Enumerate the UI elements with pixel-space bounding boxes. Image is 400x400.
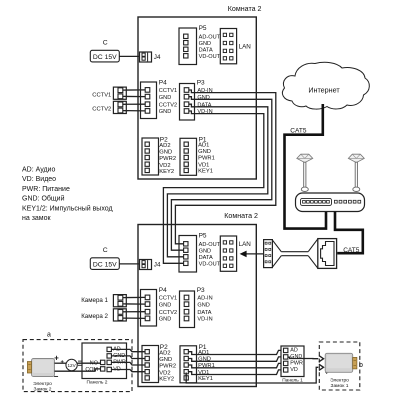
- wire unit2 P1 GND to panel1: [188, 357, 281, 361]
- svg-text:DATA: DATA: [199, 255, 213, 261]
- legend text: [22, 167, 113, 223]
- svg-text:+: +: [54, 354, 59, 363]
- svg-text:P5: P5: [199, 25, 207, 32]
- connector J4 (unit 1): [140, 52, 161, 62]
- wire DATA: unit1 P3 to unit2 P5: [167, 104, 267, 257]
- svg-text:DC 15V: DC 15V: [93, 54, 117, 61]
- svg-text:CCTV1: CCTV1: [92, 92, 111, 98]
- svg-text:CCTV2: CCTV2: [159, 310, 177, 316]
- svg-text:DATA: DATA: [197, 102, 211, 108]
- 12V terminal dashes: [78, 360, 82, 362]
- svg-text:Интернет: Интернет: [308, 86, 340, 95]
- arrow into unit2 LAN: [240, 251, 247, 258]
- connector P4 (unit 1): [141, 80, 178, 119]
- svg-text:KEY1: KEY1: [198, 376, 213, 382]
- wire 12V to NO: [77, 362, 100, 364]
- electric lock 2 body: [27, 359, 54, 377]
- connector P3 (unit 2): [180, 287, 213, 327]
- svg-text:P3: P3: [197, 287, 205, 294]
- svg-text:AD-OUT: AD-OUT: [199, 242, 221, 248]
- cable body: [281, 251, 308, 253]
- wire DC15V to J4 (unit 2): [119, 263, 139, 265]
- panel2 pin VD: [107, 367, 111, 371]
- connector P5 (unit 2): [179, 232, 221, 272]
- wire panel2 VD to unit2 P2: [111, 370, 145, 372]
- wire VD: unit1 P3 to unit2 P5: [163, 111, 263, 263]
- svg-text:GND: GND: [197, 302, 209, 308]
- svg-text:PWR: Питание: PWR: Питание: [22, 186, 70, 193]
- svg-text:Камера 2: Камера 2: [81, 313, 108, 320]
- Камера 2 plug: [113, 309, 126, 321]
- svg-text:NO: NO: [90, 360, 98, 366]
- svg-text:Электро: Электро: [330, 378, 349, 384]
- svg-text:KEY1: KEY1: [198, 169, 213, 175]
- dashed enclosure b: [319, 342, 360, 390]
- wire panel1 GND to lock 1: [288, 357, 318, 359]
- DC 15V power supply (unit 2): [90, 258, 119, 270]
- svg-text:VD1: VD1: [198, 162, 209, 168]
- wire Камера1 pin2 to P4: [123, 303, 145, 305]
- svg-text:GND: GND: [198, 149, 211, 155]
- cable boot left: [272, 240, 281, 267]
- svg-text:DATA: DATA: [197, 310, 211, 316]
- wire CAT5 internet to router: [285, 104, 327, 229]
- svg-text:CCTV1: CCTV1: [159, 88, 177, 94]
- DC 15V power supply (unit 1): [90, 50, 119, 62]
- svg-text:CCTV2: CCTV2: [92, 107, 111, 113]
- panel2 pin AD: [107, 347, 111, 351]
- svg-text:LAN: LAN: [239, 43, 252, 50]
- connector P2 (unit 2): [142, 344, 176, 383]
- svg-text:KEY1/2: Импульсный выход: KEY1/2: Импульсный выход: [22, 204, 113, 212]
- connector LAN (unit 1): [220, 29, 236, 64]
- wire unit2 P1 AD1 to panel1: [188, 350, 281, 354]
- connector P2 (unit 1): [142, 136, 176, 175]
- wire CCTV1 pin1 to P4: [123, 89, 145, 91]
- svg-text:VD: Видео: VD: Видео: [22, 176, 56, 183]
- Камера 1 plug: [113, 295, 126, 307]
- svg-text:AD-OUT: AD-OUT: [199, 35, 221, 41]
- svg-text:KEY2: KEY2: [159, 377, 174, 383]
- svg-text:b: b: [359, 362, 363, 369]
- svg-text:а: а: [47, 332, 51, 339]
- svg-text:P4: P4: [159, 80, 167, 87]
- svg-text:J4: J4: [154, 54, 161, 61]
- router right port squares: [334, 200, 360, 203]
- svg-text:VD-OUT: VD-OUT: [199, 54, 221, 60]
- svg-text:AD-IN: AD-IN: [197, 88, 212, 94]
- svg-text:AD: Аудио: AD: Аудио: [22, 167, 55, 174]
- wire lock2 + to 12V: [55, 362, 67, 364]
- wire DC15V to J4 (unit 1): [119, 55, 139, 57]
- CCTV2 plug: [113, 101, 126, 113]
- wire panel2 PWR to unit2 P2: [111, 362, 145, 365]
- router box: [296, 193, 365, 212]
- chevron arrow KEY1 into lock1: [319, 364, 324, 370]
- svg-text:GND: GND: [159, 302, 171, 308]
- dashed enclosure a: [23, 340, 132, 392]
- svg-text:VD: VD: [290, 367, 298, 373]
- svg-text:P5: P5: [199, 232, 207, 239]
- svg-text:VD-OUT: VD-OUT: [199, 262, 221, 268]
- svg-text:GND: GND: [197, 95, 209, 101]
- svg-text:GND: GND: [290, 354, 302, 360]
- svg-text:PWR1: PWR1: [198, 156, 215, 162]
- panel1 pin GND: [284, 355, 288, 359]
- svg-text:J4: J4: [154, 262, 161, 269]
- svg-text:VD2: VD2: [159, 370, 170, 376]
- svg-text:Панель 2: Панель 2: [87, 380, 108, 386]
- svg-text:VD-IN: VD-IN: [197, 109, 212, 115]
- svg-text:GND: GND: [159, 95, 171, 101]
- wire CAT5 router to RJ45 plug: [335, 212, 363, 254]
- svg-text:+: +: [61, 359, 65, 365]
- svg-text:AD: AD: [290, 348, 298, 354]
- connector LAN (unit 2): [220, 236, 236, 271]
- svg-text:C: C: [103, 247, 108, 254]
- svg-text:GND: GND: [159, 317, 171, 323]
- wire Камера1 pin1 to P4: [123, 296, 145, 298]
- svg-text:COM: COM: [85, 367, 98, 373]
- electric lock 1 body: [325, 353, 357, 372]
- svg-text:VD2: VD2: [159, 163, 170, 169]
- wire panel2 AD to unit2 P2: [111, 349, 145, 351]
- wire CCTV1 pin2 to P4: [123, 95, 145, 97]
- svg-text:PWR: PWR: [290, 361, 303, 367]
- wire Камера2 pin1 to P4: [123, 311, 145, 313]
- wire lock2 − to COM: [55, 369, 101, 371]
- wire panel2 GND to unit2 P2: [111, 356, 145, 359]
- svg-text:Комната 2: Комната 2: [224, 212, 258, 220]
- svg-text:CCTV2: CCTV2: [159, 102, 177, 108]
- svg-text:12V: 12V: [68, 363, 77, 368]
- intercom unit 2 box: [138, 225, 256, 387]
- svg-text:LAN: LAN: [239, 241, 252, 248]
- wire 8-pin connector to LAN arrow: [246, 253, 263, 255]
- panel 1 box: [281, 346, 304, 377]
- svg-text:AD-IN: AD-IN: [197, 296, 212, 302]
- wire unit2 P1 PWR1 to panel1: [188, 363, 281, 367]
- svg-text:PWR2: PWR2: [159, 156, 176, 162]
- panel1 pin VD: [284, 368, 288, 372]
- svg-text:P3: P3: [197, 80, 205, 87]
- CCTV1 plug: [113, 87, 126, 99]
- router right antenna: [348, 154, 364, 191]
- svg-text:Замок 1: Замок 1: [331, 383, 349, 389]
- connector P5 (unit 1): [179, 25, 221, 65]
- connector J4 (unit 2): [140, 260, 161, 270]
- svg-text:GND: GND: [199, 41, 211, 47]
- svg-text:AD2: AD2: [159, 350, 170, 356]
- svg-text:Камера 1: Камера 1: [81, 297, 108, 304]
- svg-text:PWR2: PWR2: [159, 364, 176, 370]
- svg-text:Замок 2: Замок 2: [34, 387, 52, 393]
- panel1 pin PWR: [284, 361, 288, 365]
- svg-text:CAT5: CAT5: [290, 128, 307, 135]
- svg-text:CAT5: CAT5: [343, 247, 360, 254]
- svg-text:AD2: AD2: [159, 143, 170, 149]
- wire GND: unit1 P3 to unit2 P5: [171, 97, 271, 251]
- panel 2 box: [82, 343, 127, 379]
- svg-text:P4: P4: [159, 287, 167, 294]
- svg-text:GND: Общий: GND: Общий: [22, 195, 65, 203]
- connector P1 (unit 1): [180, 136, 215, 175]
- panel1 pin AD: [284, 348, 288, 352]
- panel2 pin GND: [107, 354, 111, 358]
- 12V supply circle: [66, 359, 77, 370]
- svg-text:C: C: [103, 40, 108, 47]
- cable 8-pin connector: [264, 240, 273, 268]
- svg-text:Комната 2: Комната 2: [228, 5, 262, 13]
- wire AD: unit1 P3 to unit2 P5: [175, 90, 275, 244]
- svg-text:на замок: на замок: [22, 215, 52, 222]
- connector P3 (unit 1): [180, 80, 213, 120]
- svg-text:VD-IN: VD-IN: [197, 317, 212, 323]
- svg-text:Панель 1: Панель 1: [282, 377, 303, 383]
- svg-text:GND: GND: [159, 357, 172, 363]
- svg-text:CCTV1: CCTV1: [159, 296, 177, 302]
- wire CCTV2 pin1 to P4: [123, 103, 145, 105]
- svg-text:Электро: Электро: [33, 381, 52, 387]
- svg-text:GND: GND: [199, 248, 211, 254]
- connector P4 (unit 2): [141, 287, 178, 326]
- svg-text:−: −: [54, 372, 59, 381]
- svg-text:KEY2: KEY2: [159, 169, 174, 175]
- panel2 pin PWR: [107, 360, 111, 364]
- wire Камера2 pin2 to P4: [123, 317, 145, 319]
- svg-text:DC 15V: DC 15V: [93, 261, 117, 268]
- wire unit2 P1 KEY1 to lock 1: [186, 367, 318, 383]
- svg-text:GND: GND: [159, 150, 172, 156]
- connector P1 (unit 2): [180, 344, 215, 383]
- svg-text:GND: GND: [159, 109, 171, 115]
- cable boot right: [308, 239, 317, 268]
- router left antenna: [297, 154, 313, 191]
- intercom unit 1 box: [138, 17, 256, 179]
- chevron arrow GND into lock1: [319, 356, 324, 362]
- internet cloud: [282, 62, 369, 109]
- wire unit2 P1 VD1 to panel1: [188, 370, 281, 375]
- RJ45 plug: [318, 239, 337, 269]
- svg-text:DATA: DATA: [199, 47, 213, 53]
- svg-text:AD1: AD1: [198, 142, 209, 148]
- router left port group: [301, 198, 332, 205]
- wire CCTV2 pin2 to P4: [123, 110, 145, 112]
